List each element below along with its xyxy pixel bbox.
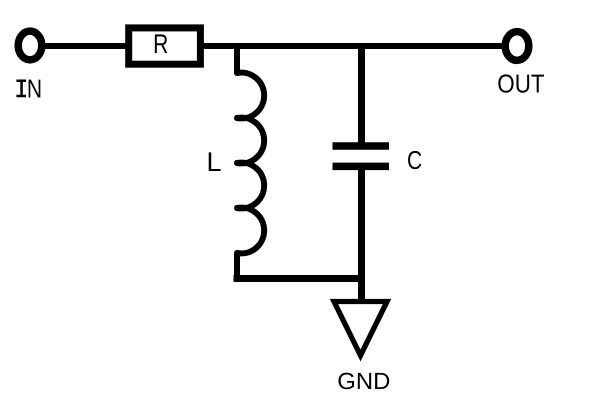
svg-text:L: L bbox=[207, 147, 222, 177]
svg-text:N: N bbox=[27, 73, 42, 103]
svg-text:GND: GND bbox=[337, 368, 390, 394]
svg-text:C: C bbox=[407, 145, 422, 175]
svg-text:R: R bbox=[153, 29, 168, 59]
svg-text:OUT: OUT bbox=[497, 69, 544, 99]
